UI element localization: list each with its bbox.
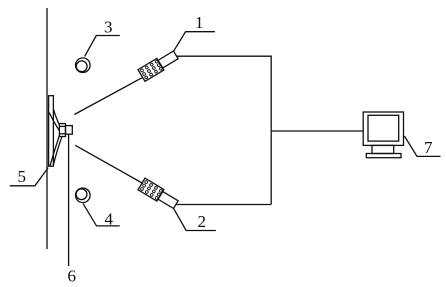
svg-text:3: 3	[104, 18, 113, 37]
leader 7	[404, 136, 440, 156]
sensor 2	[138, 178, 179, 210]
speaker cone lower inner curve	[53, 137, 62, 166]
svg-text:7: 7	[424, 138, 433, 157]
vertical line to label 6	[68, 134, 70, 266]
leader 2	[174, 209, 216, 231]
hole circle 3	[76, 61, 87, 72]
magnet nut	[59, 124, 65, 137]
magnet head square	[66, 126, 73, 135]
monitor screen	[368, 115, 399, 141]
wall line	[46, 8, 48, 249]
sensor 1	[138, 49, 179, 81]
sensor 2 aim line	[75, 145, 143, 183]
speaker plate 5	[49, 96, 54, 167]
hole circle 4 outer	[76, 188, 91, 203]
svg-text:2: 2	[198, 212, 207, 231]
leader 4	[83, 204, 120, 226]
hole circle 4	[76, 189, 87, 200]
speaker cone upper inner curve	[49, 113, 59, 131]
leader 3	[85, 36, 120, 57]
svg-text:1: 1	[195, 13, 204, 32]
hole circle 3 outer	[76, 58, 91, 73]
monitor base	[366, 154, 401, 158]
magnet nut inner line top	[59, 125, 65, 127]
svg-text:6: 6	[68, 267, 77, 286]
speaker cone upper outer curve	[54, 110, 60, 125]
monitor neck	[372, 145, 394, 153]
cable to computer	[271, 130, 363, 132]
speaker cone lower outer curve	[50, 135, 60, 166]
monitor outer	[363, 112, 403, 145]
cable from sensor 2	[176, 204, 271, 206]
leader 1	[173, 32, 215, 52]
leader 5	[10, 168, 48, 186]
svg-text:5: 5	[18, 167, 27, 186]
svg-text:4: 4	[105, 210, 114, 229]
cable from sensor 1	[177, 56, 271, 204]
sensor 1 aim line	[74, 77, 143, 114]
magnet nut inner line bottom	[59, 133, 65, 135]
